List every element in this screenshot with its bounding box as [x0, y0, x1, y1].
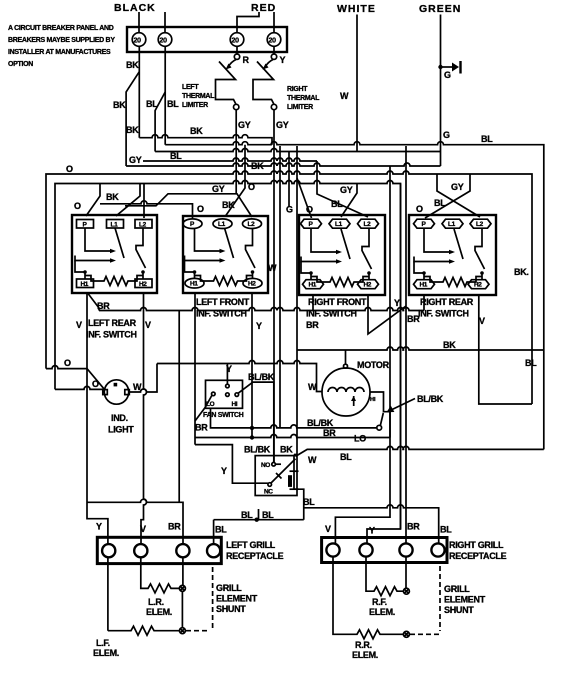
motor wiper	[353, 396, 355, 406]
node dot line1	[250, 426, 254, 430]
svg-text:BK: BK	[126, 60, 139, 70]
svg-text:BL: BL	[340, 452, 352, 462]
terminal P	[301, 219, 322, 228]
wire BLACK to CB2	[164, 12, 166, 33]
svg-text:L1: L1	[448, 221, 456, 228]
wire motor HI loop to BR line	[370, 392, 390, 438]
shunt connector X3	[403, 588, 409, 594]
svg-text:BR: BR	[306, 320, 319, 330]
wire diag to motor	[380, 413, 383, 426]
terminal L1	[107, 220, 124, 229]
svg-text:LEFT: LEFT	[182, 84, 199, 91]
terminal H1	[414, 280, 435, 289]
L.F. element wire	[108, 557, 179, 635]
svg-text:L2: L2	[476, 221, 484, 228]
svg-text:Y: Y	[369, 526, 375, 536]
left shunt dashed	[212, 567, 214, 628]
wire RED to CB4	[273, 12, 275, 33]
left grill receptacle box	[97, 537, 221, 563]
svg-text:LIGHT: LIGHT	[108, 425, 134, 435]
svg-text:V: V	[325, 524, 331, 534]
svg-text:H1: H1	[81, 281, 89, 288]
svg-text:W: W	[133, 382, 142, 392]
ind light feed wire O2	[55, 386, 103, 389]
terminal L1	[213, 219, 232, 229]
terminal H1	[185, 278, 204, 288]
wire limiter GY drop right long	[273, 110, 275, 463]
relay box	[255, 456, 297, 496]
svg-text:O: O	[197, 204, 204, 214]
svg-text:BK.: BK.	[514, 267, 529, 277]
breaker CB1 20A	[132, 33, 146, 47]
motor winding coil	[328, 388, 364, 393]
svg-text:LEFT REAR: LEFT REAR	[88, 318, 137, 328]
wire Y segment to NC	[195, 445, 268, 484]
terminal H1	[77, 279, 94, 288]
wire y502.3 horizontal	[87, 499, 183, 543]
wire diagD to P box4	[425, 174, 470, 218]
svg-text:H2: H2	[248, 281, 256, 288]
svg-text:ELEM.: ELEM.	[352, 650, 378, 660]
breaker CB3 20A	[230, 33, 244, 47]
R.R. element wire	[333, 557, 403, 639]
label RIGHT FRONT INF. SWITCH	[306, 297, 367, 330]
svg-text:W: W	[268, 263, 277, 273]
terminal H1	[303, 280, 324, 289]
svg-text:THERMAL: THERMAL	[287, 95, 320, 102]
svg-text:A CIRCUIT BREAKER PANEL AND: A CIRCUIT BREAKER PANEL AND	[8, 25, 114, 32]
bus wire B3 O y174.5	[46, 171, 532, 404]
fan pin top	[226, 384, 230, 388]
wire GREEN down (G)	[440, 15, 442, 167]
svg-text:NC: NC	[264, 489, 273, 496]
svg-text:BR: BR	[407, 314, 420, 324]
svg-text:LIMITER: LIMITER	[182, 102, 208, 109]
wire BL from relay element	[294, 489, 304, 520]
wire X1 to X2	[181, 591, 183, 627]
svg-text:GRILL: GRILL	[216, 583, 242, 593]
label GRILL ELEMENT SHUNT	[444, 584, 486, 615]
right grill receptacle box	[322, 538, 447, 563]
svg-text:LEFT GRILL: LEFT GRILL	[226, 540, 276, 550]
svg-text:BL/BK: BL/BK	[248, 372, 275, 382]
wire BK branch diagonal	[126, 72, 139, 166]
label L.R. ELEM.	[146, 597, 172, 617]
wire H1 box4 stub	[423, 295, 425, 311]
wire H1 box2 down to fan LO	[194, 294, 196, 445]
node G junction dot	[438, 65, 442, 69]
svg-text:L.R.: L.R.	[148, 597, 164, 607]
terminal H2	[243, 278, 262, 288]
svg-text:BL/BK: BL/BK	[244, 445, 271, 455]
switch 2 internals	[185, 228, 256, 286]
svg-text:INF. SWITCH: INF. SWITCH	[86, 330, 137, 340]
fan switch box	[206, 380, 243, 408]
inf switch 4 RIGHT REAR box	[409, 215, 496, 295]
svg-text:G: G	[443, 130, 450, 140]
svg-text:L1: L1	[111, 222, 119, 229]
svg-text:BK: BK	[106, 192, 119, 202]
node dot line2	[250, 435, 254, 439]
svg-text:RIGHT GRILL: RIGHT GRILL	[449, 540, 504, 550]
inf switch 1 LEFT REAR box	[72, 215, 157, 293]
wire W out of relay	[296, 446, 544, 456]
svg-text:ELEM.: ELEM.	[146, 607, 172, 617]
inf switch 2 LEFT FRONT box	[183, 216, 268, 293]
wire BR receptacle drop	[178, 311, 180, 503]
svg-text:LO: LO	[206, 401, 215, 408]
terminal H2	[358, 280, 379, 289]
wire V right receptacle	[335, 166, 390, 544]
svg-text:RED: RED	[251, 2, 276, 14]
svg-text:BR: BR	[323, 428, 336, 438]
svg-text:O: O	[92, 379, 99, 389]
svg-text:R.F.: R.F.	[372, 597, 387, 607]
wire H1 box3 stub	[312, 295, 314, 311]
wire motor top pin	[345, 350, 347, 364]
svg-text:RECEPTACLE: RECEPTACLE	[449, 551, 507, 561]
right thermal limiter body	[266, 60, 274, 67]
svg-text:BL: BL	[215, 525, 227, 535]
svg-text:RECEPTACLE: RECEPTACLE	[226, 551, 284, 561]
terminal L2	[470, 219, 491, 228]
svg-text:V: V	[145, 320, 151, 330]
terminal L2	[358, 219, 379, 228]
receptacle pin 3	[399, 543, 412, 556]
L.R. element wire	[141, 557, 179, 593]
wire BR line2 y439.2	[195, 435, 390, 438]
inf switch 3 RIGHT FRONT box	[299, 215, 385, 295]
svg-text:NO: NO	[261, 462, 270, 469]
svg-text:L2: L2	[139, 222, 147, 229]
svg-text:H2: H2	[139, 281, 147, 288]
terminal P	[414, 219, 435, 228]
wire diagC GY to L2 box4	[437, 174, 480, 217]
svg-text:G: G	[286, 205, 293, 215]
svg-text:SHUNT: SHUNT	[444, 605, 474, 615]
relay blade with X	[271, 459, 296, 483]
ground arrow symbol	[441, 61, 461, 74]
receptacle pin 3	[176, 544, 189, 557]
svg-text:LIMITER: LIMITER	[287, 104, 313, 111]
thermal limiter right: top pin circle Y	[271, 54, 276, 59]
svg-text:BL: BL	[440, 525, 452, 535]
label LEFT GRILL RECEPTACLE	[226, 540, 284, 561]
svg-text:20: 20	[160, 38, 168, 45]
svg-text:Y: Y	[256, 321, 262, 331]
callout BL/BK with arrow	[390, 399, 415, 411]
wire Y right receptacle	[367, 184, 401, 544]
svg-text:BK: BK	[113, 100, 126, 110]
svg-text:BL: BL	[434, 198, 446, 208]
wire BL right y507.8	[304, 505, 439, 544]
label LEFT REAR INF. SWITCH	[86, 318, 137, 340]
ind light feed wire O1	[46, 366, 105, 390]
wire BL slash branch	[155, 92, 165, 152]
left limiter bottom pin circle	[234, 104, 239, 109]
svg-text:L1: L1	[218, 221, 226, 228]
receptacle pin 2	[134, 544, 147, 557]
svg-text:H1: H1	[420, 282, 428, 289]
fan HI wire BL/BK diagonal out	[238, 382, 274, 462]
svg-text:BL: BL	[146, 99, 158, 109]
label RIGHT REAR INF. SWITCH	[418, 297, 474, 319]
wire BL left y519.7	[214, 519, 304, 521]
wire y204 to P box2	[100, 201, 193, 218]
motor M1	[322, 368, 370, 416]
wire vertical x297 to relay	[294, 146, 297, 455]
wire CB1 drop BK	[138, 46, 140, 137]
svg-text:L2: L2	[364, 221, 372, 228]
svg-text:GREEN: GREEN	[419, 3, 461, 15]
svg-text:O: O	[64, 358, 71, 368]
terminal P	[77, 220, 94, 229]
note text top-left	[8, 25, 115, 68]
svg-text:W: W	[340, 91, 349, 101]
svg-text:Y: Y	[226, 364, 232, 374]
svg-text:Y: Y	[280, 55, 286, 65]
svg-text:BL/BK: BL/BK	[307, 418, 334, 428]
fan switch Y drop	[226, 364, 228, 385]
svg-text:BL: BL	[303, 497, 315, 507]
relay heater element	[293, 455, 295, 490]
wire BL/BK line1 y427.9	[211, 408, 377, 428]
svg-text:INSTALLER AT MANUFACTURES: INSTALLER AT MANUFACTURES	[8, 49, 111, 56]
svg-text:FAN SWITCH: FAN SWITCH	[203, 412, 244, 419]
relay NC pin	[268, 483, 272, 487]
svg-text:IND.: IND.	[111, 413, 128, 423]
svg-text:GY: GY	[212, 184, 225, 194]
svg-text:W: W	[308, 382, 317, 392]
wire H2 box1 down (V)	[141, 294, 147, 544]
label LEFT THERMAL LIMITER	[182, 84, 215, 109]
terminal H2	[468, 280, 489, 289]
svg-text:BR: BR	[195, 423, 208, 433]
wire BK motor top bus y350	[297, 347, 544, 350]
svg-text:BR: BR	[407, 522, 420, 532]
bus wire A2 y144.7	[165, 142, 544, 450]
svg-text:W: W	[308, 455, 317, 465]
svg-text:V: V	[140, 524, 146, 534]
receptacle pin 4	[431, 543, 444, 556]
svg-text:R.R.: R.R.	[355, 640, 372, 650]
terminal L1	[442, 219, 463, 228]
svg-text:BL: BL	[262, 510, 274, 520]
svg-text:L1: L1	[335, 221, 343, 228]
svg-text:BK: BK	[126, 125, 139, 135]
svg-text:BK: BK	[280, 445, 293, 455]
relay NO pin	[272, 462, 276, 466]
svg-text:GY: GY	[451, 182, 464, 192]
label R.F. ELEM.	[369, 597, 395, 617]
svg-text:20: 20	[269, 38, 277, 45]
svg-text:BL: BL	[167, 99, 179, 109]
receptacle pin 2	[359, 543, 372, 556]
svg-text:SHUNT: SHUNT	[216, 604, 246, 614]
thermal limiter left: top pin circle R	[234, 54, 239, 59]
svg-text:20: 20	[134, 38, 142, 45]
receptacle pin 1	[102, 544, 115, 557]
bus wire A1 BK y138	[139, 135, 272, 145]
right limiter bottom pin circle	[271, 104, 276, 109]
svg-text:ELEMENT: ELEMENT	[444, 595, 486, 605]
svg-text:L.F.: L.F.	[96, 638, 110, 648]
wire H2 box3 down and diag Y	[368, 295, 406, 334]
svg-text:HI: HI	[232, 401, 238, 408]
svg-text:RIGHT FRONT: RIGHT FRONT	[308, 297, 367, 307]
wire diag to P box1	[86, 184, 100, 217]
svg-text:G: G	[444, 70, 451, 80]
breaker CB2 20A	[158, 33, 172, 47]
svg-text:GY: GY	[340, 185, 353, 195]
svg-text:BLACK: BLACK	[114, 2, 156, 14]
label LEFT FRONT INF. SWITCH	[196, 297, 250, 319]
switch 4 internals	[414, 229, 485, 287]
svg-text:OPTION: OPTION	[8, 61, 33, 68]
terminal L1	[329, 219, 350, 228]
wire BR bus y310.5	[99, 308, 424, 311]
wire BL drop to left receptacle	[213, 520, 215, 544]
svg-text:GRILL: GRILL	[444, 584, 470, 594]
wire O drop to L1 box2	[226, 145, 246, 216]
fan internal blade	[206, 396, 212, 407]
wire diag to P box3	[297, 178, 312, 218]
fan pin mid	[226, 393, 230, 397]
wire BR from H1 box1	[88, 294, 99, 311]
wire W from light	[130, 364, 158, 393]
terminal L2	[243, 219, 262, 229]
wire BLACK to CB1	[138, 12, 140, 33]
svg-text:ELEM.: ELEM.	[369, 607, 395, 617]
svg-text:O: O	[74, 201, 81, 211]
wire H1 box1 down to Y corner	[87, 294, 108, 544]
svg-text:BREAKERS MAYBE SUPPLIED BY: BREAKERS MAYBE SUPPLIED BY	[8, 37, 115, 44]
wire CB2 drop BL	[164, 46, 166, 144]
wire W light to motor y363.5	[157, 361, 322, 392]
svg-text:WHITE: WHITE	[337, 3, 376, 15]
wire L2 box1 up	[143, 184, 145, 219]
svg-text:GY: GY	[129, 155, 142, 165]
wire vertical x289 G to P box3	[288, 152, 290, 208]
wire diagB to L1 box3	[341, 184, 357, 218]
svg-text:O: O	[416, 204, 423, 214]
terminal H2	[135, 279, 152, 288]
receptacle pin 4	[207, 544, 220, 557]
svg-text:BL: BL	[481, 134, 493, 144]
svg-text:BL: BL	[170, 151, 182, 161]
wire GY snake to L2 box2	[125, 194, 252, 217]
svg-text:MOTOR: MOTOR	[357, 360, 390, 370]
bus wire B2 GY y166	[126, 163, 440, 166]
label RIGHT THERMAL LIMITER	[287, 86, 320, 111]
svg-text:BK: BK	[443, 340, 456, 350]
svg-text:LO: LO	[354, 434, 366, 444]
wire diag to fan LO from below	[195, 407, 206, 421]
svg-text:V: V	[76, 320, 82, 330]
node dot	[255, 518, 259, 522]
bus wire B1 BL y161	[143, 158, 317, 161]
terminal L2	[135, 220, 152, 229]
label RIGHT GRILL RECEPTACLE	[449, 540, 507, 561]
NO dash	[276, 463, 281, 465]
svg-text:Y: Y	[96, 522, 102, 532]
R.F. element wire	[366, 557, 403, 595]
wire H2 box2 down Y	[251, 294, 253, 438]
svg-text:LEFT FRONT: LEFT FRONT	[196, 297, 250, 307]
motor top pin circle	[344, 364, 348, 368]
svg-text:HI: HI	[370, 397, 376, 403]
svg-text:Y: Y	[221, 466, 227, 476]
receptacle pin 1	[326, 543, 339, 556]
bus wire B4 y183.5	[55, 181, 401, 530]
svg-text:BL/BK: BL/BK	[417, 394, 444, 404]
wire BR right receptacle	[405, 146, 407, 544]
svg-text:ELEMENT: ELEMENT	[216, 594, 258, 604]
label R.R. ELEM.	[352, 640, 378, 660]
svg-text:BL: BL	[525, 358, 537, 368]
svg-text:RIGHT REAR: RIGHT REAR	[420, 297, 474, 307]
svg-text:BK: BK	[190, 126, 203, 136]
svg-text:BK: BK	[251, 161, 264, 171]
terminal P	[183, 219, 202, 229]
svg-text:ELEM.: ELEM.	[93, 648, 119, 658]
svg-text:O: O	[66, 164, 73, 174]
wire diagA GY to L2 box3	[317, 161, 368, 217]
svg-text:BR: BR	[168, 522, 181, 532]
svg-text:INF. SWITCH: INF. SWITCH	[418, 309, 469, 319]
switch 1 internals	[75, 228, 146, 286]
wire vertical x280	[279, 146, 281, 428]
wire limiter GY drop left	[235, 110, 237, 195]
open terminal circle	[377, 425, 382, 430]
label L.F. ELEM.	[93, 638, 119, 658]
wire H2 box4 loop right	[479, 295, 532, 404]
shunt connector X1	[179, 585, 185, 591]
svg-text:R: R	[243, 55, 250, 65]
svg-text:THERMAL: THERMAL	[182, 93, 215, 100]
breaker CB4 20A	[267, 33, 281, 47]
wire pin3 down to X3	[405, 557, 407, 588]
right shunt dashed	[439, 566, 441, 631]
shunt connector X4	[403, 631, 409, 637]
svg-text:BL: BL	[331, 199, 343, 209]
svg-text:H2: H2	[364, 282, 372, 289]
svg-text:H1: H1	[190, 281, 198, 288]
left thermal limiter body	[229, 60, 237, 67]
wire pin3 down to X1	[182, 557, 184, 585]
svg-text:GY: GY	[276, 120, 289, 130]
svg-text:20: 20	[232, 38, 240, 45]
fan pin LO	[212, 392, 216, 396]
svg-text:Y: Y	[394, 298, 400, 308]
wire WHITE down (W)	[356, 15, 358, 152]
bus wire A3 y151.5	[155, 149, 440, 152]
fan pin HI	[235, 393, 239, 397]
svg-text:RIGHT: RIGHT	[287, 86, 308, 93]
label IND. LIGHT	[108, 413, 134, 435]
svg-text:V: V	[479, 316, 485, 326]
svg-text:H1: H1	[309, 282, 317, 289]
svg-text:BL: BL	[241, 510, 253, 520]
svg-text:GY: GY	[238, 120, 251, 130]
wire RED to CB3	[237, 12, 259, 33]
wire diag to L1 box1	[116, 184, 140, 217]
svg-text:L2: L2	[248, 221, 256, 228]
label GRILL ELEMENT SHUNT	[216, 583, 258, 614]
svg-text:O: O	[248, 182, 255, 192]
shunt connector X2	[179, 628, 185, 634]
circuit breaker panel box	[127, 27, 287, 52]
